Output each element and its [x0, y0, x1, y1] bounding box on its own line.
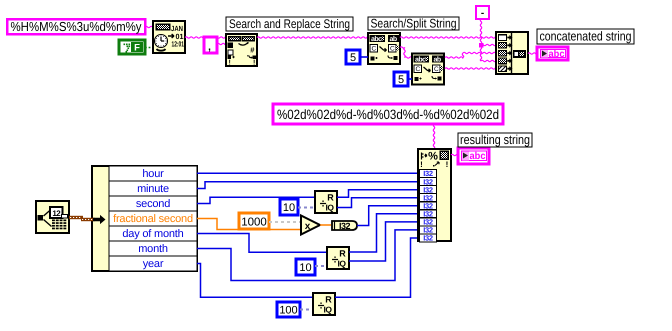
wire: Search/Split 1 output to concatenate input 1 [400, 37, 496, 38]
svg-text:hour: hour [142, 168, 164, 180]
wire: 5 to Search/Split 1 offset [360, 56, 368, 58]
svg-text:10: 10 [299, 262, 311, 274]
wire: Q&R3 remainder to Format input 9 [335, 238, 418, 297]
string constant "%02d%02d%d-%d%03d%d-%d%02d%02d" [273, 104, 503, 124]
wire: Q&R1 remainder to Format input 3 [337, 190, 418, 198]
svg-text:fractional second: fractional second [113, 213, 193, 225]
svg-text:R: R [327, 193, 334, 203]
svg-text:IQ: IQ [338, 259, 347, 269]
wire: 5 to Search/Split 2 offset [408, 78, 412, 80]
svg-text:resulting string: resulting string [460, 132, 530, 147]
svg-text:IQ: IQ [324, 305, 333, 315]
label: Search/Split String [368, 17, 459, 31]
svg-text:%: % [428, 151, 438, 163]
wire: Search/Split 1 to Search/Split 2 [400, 47, 412, 58]
numeric constant 1000 [239, 213, 269, 229]
wire: concatenated string output [528, 53, 537, 54]
wire: 1000 to multiply [269, 221, 301, 223]
svg-text:abc: abc [371, 35, 382, 43]
svg-text:12: 12 [52, 209, 61, 218]
wire: boolean constant to Format Date/Time [145, 47, 154, 49]
wire: 10 to Q&R 1 divisor [298, 207, 315, 209]
Multiply node [301, 216, 320, 235]
wire: format string to Format Into String [433, 124, 434, 149]
svg-text:R: R [325, 295, 332, 305]
wire: 100 to Q&R 3 divisor [300, 309, 313, 311]
wire: Search/Split 2 output A to concatenate input 3 [445, 52, 496, 58]
string constant "-" [476, 6, 489, 19]
svg-text:-: - [481, 8, 484, 19]
svg-text:I32: I32 [423, 234, 433, 243]
svg-text:I32: I32 [339, 221, 351, 231]
wire: Q&R1 quotient to Format input 4 [337, 198, 418, 208]
Format Date/Time String node [153, 21, 185, 53]
svg-text:abc: abc [415, 56, 426, 64]
svg-text:10: 10 [283, 202, 295, 214]
svg-text:F: F [134, 43, 140, 54]
svg-text:x: x [305, 221, 311, 232]
svg-text:C: C [390, 45, 395, 52]
Quotient & Remainder node 2 [327, 247, 349, 269]
svg-text:ab: ab [390, 35, 397, 43]
wire: resulting string output [451, 154, 458, 155]
wire: format string to Format Date/Time String [145, 26, 154, 27]
svg-text:100: 100 [279, 305, 297, 317]
wire: comma to search string input [217, 43, 226, 44]
wire: year to Q&R 3 [197, 264, 313, 298]
Concatenate Strings node [496, 32, 528, 74]
svg-text:1000: 1000 [241, 217, 267, 229]
To Long Integer node [332, 221, 357, 231]
svg-text:!: ! [420, 160, 423, 169]
Quotient & Remainder node 1 [315, 191, 337, 213]
svg-text:%H%M%S%3u%d%m%y: %H%M%S%3u%d%m%y [11, 19, 142, 34]
Format Into String node [418, 149, 451, 243]
svg-text:C: C [371, 45, 376, 52]
svg-text:Search and Replace String: Search and Replace String [229, 17, 350, 31]
wire: second to Quotient-Remainder 1 [197, 197, 315, 203]
string constant "%H%M%S%3u%d%m%y" [7, 19, 145, 34]
wire: Search/Split 2 output B to concatenate input 5 [445, 68, 496, 69]
svg-text:R: R [339, 249, 346, 259]
svg-text:abc: abc [549, 49, 565, 60]
svg-text:minute: minute [137, 183, 169, 195]
wire: "-" separator to concatenate inputs [479, 19, 496, 62]
wire: minute to Format input 2 [197, 182, 418, 189]
svg-text:5: 5 [398, 74, 404, 86]
wire: Q&R2 quotient to Format input 7 [349, 222, 418, 261]
label: concatenated string [537, 29, 634, 44]
svg-text:C: C [434, 66, 439, 73]
wire: Q&R2 remainder to Format input 6 [349, 214, 418, 252]
numeric constant 10 (second) [296, 259, 315, 275]
svg-text:day of month: day of month [122, 228, 183, 240]
label: resulting string [458, 132, 532, 147]
wire: 10 to Q&R 2 divisor [315, 265, 327, 267]
svg-text:Search/Split String: Search/Split String [371, 17, 457, 31]
wire: day of month to Q&R 2 [197, 234, 327, 253]
svg-text:!: ! [446, 160, 449, 169]
label: Search and Replace String [226, 17, 353, 31]
wire: replaced string to Search/Split String 1 [257, 37, 368, 38]
svg-text:year: year [143, 258, 164, 270]
Unbundle By Name node [92, 166, 197, 271]
Date/Time To Seconds node [36, 201, 69, 233]
Quotient & Remainder node 3 [313, 293, 335, 315]
svg-text:IQ: IQ [326, 203, 335, 213]
boolean constant F [119, 40, 145, 54]
svg-text:!: ! [229, 60, 231, 67]
Search and Replace String node [226, 34, 257, 67]
numeric constant 5 (second) [394, 72, 408, 86]
string constant "," [204, 37, 217, 53]
svg-text:%02d%02d%d-%d%03d%d-%d%02d%02d: %02d%02d%d-%d%03d%d-%d%02d%02d [277, 107, 499, 122]
wire: date/time cluster to Unbundle By Name [69, 215, 106, 224]
wire: multiply to To Long Integer [320, 224, 331, 226]
svg-text:C: C [415, 66, 420, 73]
svg-text:12:01: 12:01 [172, 40, 185, 49]
svg-text:ab: ab [434, 56, 441, 64]
wire: month to Format input 8 [197, 230, 418, 281]
indicator: concatenated string terminal [537, 47, 568, 60]
numeric constant 10 (first) [280, 199, 298, 215]
svg-text:!: ! [253, 60, 255, 67]
wire: milliseconds to Format input 5 [357, 206, 418, 226]
wire: hour to Format input 1 [197, 172, 418, 174]
svg-text:concatenated string: concatenated string [540, 29, 632, 44]
wire: date/time string to Search and Replace String [185, 37, 226, 38]
svg-text:,: , [208, 42, 211, 53]
numeric constant 5 (first) [346, 50, 360, 64]
Search/Split String node 2 [412, 54, 444, 85]
svg-text:abc: abc [470, 151, 486, 162]
svg-text:month: month [138, 243, 168, 255]
Search/Split String node 1 [368, 33, 400, 64]
svg-text:5: 5 [350, 52, 356, 64]
indicator: resulting string terminal [458, 148, 489, 164]
numeric constant 100 [277, 302, 300, 317]
svg-text:second: second [136, 198, 170, 210]
wire: fractional second to multiply [197, 219, 301, 230]
